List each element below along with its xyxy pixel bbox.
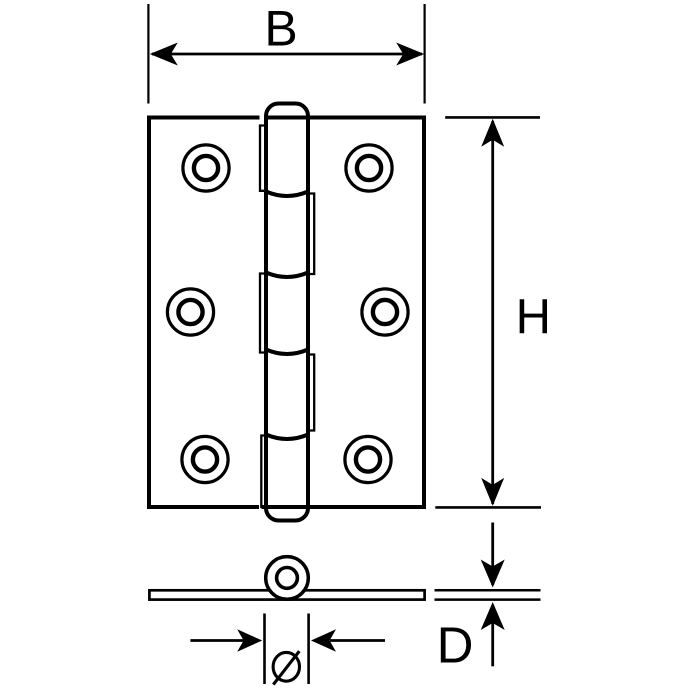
dimension diameter arrow line right	[330, 639, 385, 642]
dimension diameter arrowhead left (pointing right)	[237, 629, 262, 651]
hinge leaf plate outline left part	[147, 118, 260, 510]
dimension H tick bottom	[435, 506, 541, 509]
dimension diameter arrowhead right (pointing left)	[311, 629, 336, 651]
dimension D arrow line top	[491, 523, 494, 586]
dimension D arrowhead bottom (pointing up)	[481, 602, 505, 630]
dimension label diameter symbol	[273, 651, 299, 684]
knuckle sleeve edge 3 (left)	[260, 274, 266, 353]
dimension H arrowhead top	[481, 119, 504, 147]
dimension B arrowhead left	[150, 43, 178, 66]
dimension B arrowhead right	[396, 43, 424, 66]
side view pin knuckle outer circle	[266, 557, 309, 600]
knuckle joint line 4	[266, 435, 308, 440]
knuckle sleeve edge 4 (right)	[308, 355, 314, 431]
dimension D arrowhead top (pointing down)	[481, 560, 505, 588]
dimension D arrow line bottom	[491, 605, 494, 666]
knuckle sleeve edge 5 (left)	[261, 436, 266, 508]
knuckle joint line 3	[266, 350, 308, 355]
dimension D extension line lower	[435, 598, 541, 601]
screw hole top-right	[346, 145, 392, 191]
dimension B extension line right	[424, 4, 426, 104]
dimension diameter arrow line left	[190, 639, 245, 642]
svg-text:D: D	[437, 616, 474, 673]
dimension diameter extension line right	[307, 614, 310, 685]
screw hole middle-left	[167, 289, 213, 335]
knuckle sleeve edge 2 (right)	[308, 194, 314, 275]
dimension D extension line upper	[435, 589, 541, 592]
side view pin bore inner circle	[277, 568, 298, 589]
svg-text:B: B	[264, 1, 297, 57]
knuckle joint line 1	[266, 192, 308, 197]
dimension B extension line left	[147, 4, 149, 104]
knuckle joint line 2	[266, 273, 308, 278]
knuckle sleeve edge 1 (left)	[260, 126, 266, 191]
hinge pin barrel (front view, rounded capsule)	[266, 104, 308, 521]
dimension H arrowhead bottom	[481, 478, 504, 506]
screw hole top-left	[183, 145, 229, 191]
dimension H tick top	[445, 116, 540, 119]
dimension diameter extension line left	[263, 614, 266, 685]
side view leaf bar	[149, 590, 424, 599]
hinge leaf plate outline right part	[262, 118, 427, 510]
screw hole bottom-right	[345, 436, 391, 482]
svg-text:H: H	[516, 290, 551, 344]
dimension B arrow line	[152, 53, 422, 56]
screw hole bottom-left	[182, 436, 228, 482]
screw hole middle-right	[362, 289, 408, 335]
dimension H arrow line	[491, 121, 494, 504]
